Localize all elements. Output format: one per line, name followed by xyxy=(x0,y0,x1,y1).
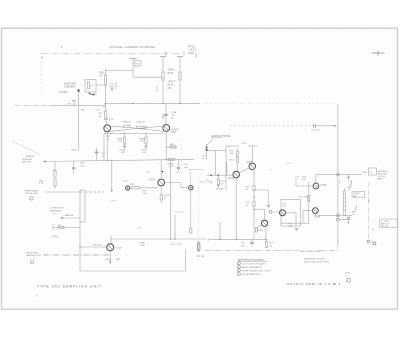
svg-text:AMP 2: AMP 2 xyxy=(378,178,385,181)
wire Q78B collector xyxy=(314,214,316,216)
junction dot TD xyxy=(206,150,208,152)
svg-text:C82 .001: C82 .001 xyxy=(312,130,321,132)
transistor Q73B xyxy=(249,163,255,169)
wire box rail 2 xyxy=(80,190,85,222)
wire output line A xyxy=(316,174,362,176)
hook interface xyxy=(367,198,370,201)
svg-text:Q87 A: Q87 A xyxy=(105,258,112,261)
dashed separator line xyxy=(41,51,184,59)
label TO AMP block xyxy=(380,219,398,228)
label C55 xyxy=(96,109,114,121)
capacitor C59 stub xyxy=(71,147,79,152)
title TYPE 3S2 xyxy=(37,284,102,288)
component C55 R55 xyxy=(68,101,85,112)
svg-text:TYPE 3S2 SAMPLING UNIT: TYPE 3S2 SAMPLING UNIT xyxy=(37,284,102,288)
resistor R76A xyxy=(255,226,263,233)
svg-text:4.7K: 4.7K xyxy=(39,183,44,185)
wire Q73 box top xyxy=(226,145,258,147)
title OUTPUT AMPL xyxy=(287,282,341,286)
interface dash-dot xyxy=(367,182,369,240)
wire output line B xyxy=(318,214,352,216)
label multi-trace units xyxy=(300,250,321,253)
transistor Q78B xyxy=(313,208,319,214)
svg-text:MULTI-TRACE UNITS: MULTI-TRACE UNITS xyxy=(300,250,321,253)
svg-text:4.7 μF: 4.7 μF xyxy=(116,247,123,249)
diode D56 curve xyxy=(89,93,97,96)
transistor Q78A xyxy=(313,183,319,189)
label Q73A xyxy=(228,177,234,180)
svg-text:SAMPLE STROBE: SAMPLE STROBE xyxy=(211,135,231,138)
wire trigger line xyxy=(43,254,110,256)
capacitor C68 xyxy=(176,160,204,174)
svg-text:(BLANK): (BLANK) xyxy=(216,188,224,191)
svg-text:Q75B: Q75B xyxy=(257,230,263,232)
wire Q78A collector xyxy=(315,175,317,184)
resistor R61A xyxy=(123,121,132,128)
svg-text:+: + xyxy=(36,294,38,298)
emitter ladder Q78 xyxy=(298,182,310,224)
transistor Q75B xyxy=(261,220,267,226)
resistor R62A xyxy=(117,134,126,149)
capacitor C62B label xyxy=(141,150,147,155)
svg-text:OUTPUT AMPL № 1 & № 2: OUTPUT AMPL № 1 & № 2 xyxy=(287,282,341,286)
resistor R52 chain xyxy=(177,57,183,104)
label Q73B xyxy=(247,162,273,171)
capacitor C84 xyxy=(347,217,351,224)
wire interdot line xyxy=(43,161,104,163)
label C77 R77 xyxy=(295,176,307,181)
svg-text:DCPL: DCPL xyxy=(168,85,175,87)
label FROM block xyxy=(25,189,39,200)
wire Q73A emitter xyxy=(235,178,237,240)
svg-text:SEMICONDUCTOR TYPES: SEMICONDUCTOR TYPES xyxy=(304,261,330,263)
capacitor C52 cluster xyxy=(110,82,116,90)
label C73 top xyxy=(241,143,248,145)
label Q78A xyxy=(321,184,327,187)
capacitor C58 xyxy=(72,161,85,174)
title VOLTAGE + CURRENT SAMPLING xyxy=(109,45,155,49)
transistor Q75A xyxy=(158,179,165,186)
resistor R50 xyxy=(100,69,107,106)
boundary dash-dot bottom xyxy=(205,249,338,251)
wire Q75B top xyxy=(254,209,265,220)
svg-text:C1A: C1A xyxy=(162,114,167,117)
wire left bias line xyxy=(15,105,106,107)
wire Q73A base xyxy=(207,174,233,176)
svg-text:R79A: R79A xyxy=(139,241,145,244)
resistor R62B xyxy=(139,134,148,149)
label Q78B xyxy=(314,216,320,218)
svg-text:TRACE: TRACE xyxy=(353,192,360,195)
resistor R55A xyxy=(99,103,107,125)
diode box D55 xyxy=(85,80,96,93)
boundary dashed right xyxy=(180,140,182,175)
wire signal line xyxy=(45,191,104,193)
junction node bus xyxy=(105,103,181,105)
hook small xyxy=(372,228,375,231)
svg-text:TD: TD xyxy=(283,206,286,208)
junction diode cluster xyxy=(126,186,130,190)
label FROM TRIG xyxy=(26,252,41,263)
label R79A xyxy=(139,241,145,247)
label Q87 value xyxy=(116,247,123,249)
resistor R75 xyxy=(246,171,256,239)
trace sep element R84 xyxy=(343,188,345,215)
svg-text:27K: 27K xyxy=(118,141,122,143)
label FROM INVERTER xyxy=(22,155,35,163)
svg-text:C59 8.2: C59 8.2 xyxy=(71,150,79,152)
svg-text:CURRENT: CURRENT xyxy=(64,86,76,89)
diode TD cluster xyxy=(205,144,208,160)
wire Q75A collector xyxy=(161,160,163,179)
transistor Q87 xyxy=(107,244,114,251)
svg-text:27K: 27K xyxy=(140,141,144,143)
wire Q73 pair link xyxy=(239,168,249,173)
wire Q87 collector xyxy=(111,236,206,244)
wire emitter Q55B xyxy=(165,131,167,159)
svg-text:SAMPL GENERATOR: SAMPL GENERATOR xyxy=(242,266,262,269)
svg-text:OUTPUT: OUTPUT xyxy=(171,129,181,131)
svg-text:C70A: C70A xyxy=(171,111,177,114)
wire TD link xyxy=(207,150,227,152)
hook left A xyxy=(338,180,341,183)
wire Q87 base xyxy=(79,246,106,247)
transistor Q73A xyxy=(233,171,240,178)
svg-text:4: 4 xyxy=(238,270,239,272)
resistor R66 stub xyxy=(166,144,177,148)
diode clamp xyxy=(347,175,350,181)
wire gate out xyxy=(339,219,349,221)
wire long emitter bus xyxy=(208,238,267,241)
svg-text:REFERENCE DIAGRAMS: REFERENCE DIAGRAMS xyxy=(238,258,264,261)
pin circle A xyxy=(367,240,373,244)
wire output drop xyxy=(170,161,172,239)
potentiometer R80 xyxy=(348,181,353,192)
label SAMPLE STROBE xyxy=(207,135,231,145)
reference diagrams title xyxy=(238,258,268,261)
ground Q76 xyxy=(295,229,299,231)
label TRACE SEP box xyxy=(352,192,365,198)
wire bridge bus xyxy=(104,133,163,134)
wire Q75B emitter xyxy=(265,226,267,240)
svg-text:2: 2 xyxy=(238,263,239,265)
svg-text:C72A: C72A xyxy=(220,180,226,183)
label below Q87 xyxy=(105,258,121,261)
wire Q87 emitter xyxy=(109,251,111,264)
svg-text:1K: 1K xyxy=(100,76,103,78)
svg-text:FROM TRIG: FROM TRIG xyxy=(26,252,39,254)
capacitor C70A xyxy=(162,103,177,124)
svg-text:+300 V: +300 V xyxy=(168,70,176,72)
pot arrow R85 xyxy=(352,206,357,217)
label OUTPUT arrow xyxy=(171,129,181,131)
wire box bottom xyxy=(80,250,186,271)
wire box bottom link xyxy=(281,222,309,224)
svg-text:R61B 18: R61B 18 xyxy=(137,122,146,124)
component bottom cluster xyxy=(53,224,80,230)
dark blob right xyxy=(189,170,193,233)
wire cross couple 2 xyxy=(111,126,164,131)
svg-text:FROM SAMP: FROM SAMP xyxy=(25,189,39,192)
wire bias column xyxy=(95,148,99,161)
junction bubble A xyxy=(337,173,340,176)
label TP mark xyxy=(51,237,58,239)
label R77 bottom xyxy=(171,244,200,253)
label SNAP-OFF line1 xyxy=(64,83,77,89)
connector jack J1 xyxy=(362,168,377,175)
transistor Q76 xyxy=(280,210,286,216)
wire box left edge xyxy=(79,190,81,271)
svg-text:SEP: SEP xyxy=(353,196,358,198)
wire signal line 2 xyxy=(111,161,113,193)
resistor R67A xyxy=(168,159,175,169)
svg-text:Q75A: Q75A xyxy=(149,179,155,182)
wire Q73B emitter xyxy=(253,169,255,171)
junction bubble B1 xyxy=(337,214,340,217)
capacitor C50 box xyxy=(135,61,142,67)
wire supply jog xyxy=(106,59,164,78)
svg-text:2.2K: 2.2K xyxy=(177,244,182,246)
label TP50 block xyxy=(188,46,197,59)
wire Q78B base xyxy=(303,211,313,224)
resistor R76B xyxy=(289,223,294,228)
wire Q73B collector xyxy=(251,146,253,163)
label R86 xyxy=(93,245,102,247)
svg-text:5: 5 xyxy=(238,274,239,276)
label TO VERT OUT xyxy=(378,170,389,181)
reference line 4 xyxy=(237,272,261,276)
wire +supply rail xyxy=(106,102,337,104)
wire emitter Q55A xyxy=(106,132,108,161)
resistor chain mid xyxy=(197,242,206,258)
main output rail xyxy=(337,104,339,247)
svg-text:Q73B: Q73B xyxy=(247,162,253,164)
plus mark bottom xyxy=(36,294,38,298)
junction bubble B2 xyxy=(337,218,340,221)
svg-text:C62B: C62B xyxy=(141,150,147,152)
svg-text:1.9K: 1.9K xyxy=(143,193,148,195)
wire riser xyxy=(175,212,185,239)
svg-text:R50: R50 xyxy=(100,73,105,75)
svg-text:Q78B: Q78B xyxy=(314,216,320,218)
svg-text:Q55B: Q55B xyxy=(171,132,177,134)
register cross mark xyxy=(372,51,385,56)
svg-text:1.9K: 1.9K xyxy=(140,245,145,247)
capacitor C62A label xyxy=(120,149,126,155)
reference line 2 xyxy=(237,265,261,269)
svg-text:AMP V54: AMP V54 xyxy=(22,160,32,163)
svg-text:TP74: TP74 xyxy=(273,212,279,214)
transistor Q55B xyxy=(163,125,170,132)
svg-text:Q78A: Q78A xyxy=(321,184,327,187)
label small q xyxy=(124,181,129,183)
wire Q76 link xyxy=(286,213,297,226)
svg-text:COMPOSITE: COMPOSITE xyxy=(50,208,64,210)
wire Q75A emitter xyxy=(143,184,170,203)
reference line 3 xyxy=(237,269,271,273)
resistor R51 chain xyxy=(160,57,166,104)
svg-text:IND OSC: IND OSC xyxy=(381,226,390,228)
label mid bias xyxy=(146,172,150,174)
wire strobe feed xyxy=(78,92,80,148)
label MOD stack xyxy=(346,272,351,282)
wire Q78A base xyxy=(296,181,313,186)
label GATE xyxy=(58,90,69,94)
wire Q73 box left xyxy=(225,146,227,190)
svg-text:R77A: R77A xyxy=(164,194,170,197)
capacitor C75 xyxy=(241,239,254,247)
svg-text:Q73A: Q73A xyxy=(228,177,234,180)
svg-text:3: 3 xyxy=(238,267,239,269)
svg-text:C62A: C62A xyxy=(120,149,126,152)
capacitor C82 xyxy=(296,124,337,132)
junction node strobe xyxy=(77,89,79,91)
svg-text:+ GATE Iⁱ: + GATE Iⁱ xyxy=(58,90,69,94)
svg-text:R61A 18: R61A 18 xyxy=(123,121,132,124)
svg-text:DCPL: DCPL xyxy=(168,73,175,75)
label SEE PARTS LIST xyxy=(304,258,330,264)
label COMPOSITE BLANKING xyxy=(50,208,64,216)
svg-text:DCPL: DCPL xyxy=(188,52,195,55)
label D76 xyxy=(283,203,288,208)
svg-text:TAKEOFF V24: TAKEOFF V24 xyxy=(26,254,41,257)
label TP58 xyxy=(52,171,57,173)
svg-text:PULSE GEN: PULSE GEN xyxy=(25,193,38,195)
svg-text:+ TP 8: + TP 8 xyxy=(51,237,58,239)
resistor R61B xyxy=(137,122,147,129)
svg-text:+ SAMPLE: + SAMPLE xyxy=(63,214,74,217)
svg-text:± 4.5 V LOGIC VOLTAGES: ± 4.5 V LOGIC VOLTAGES xyxy=(242,262,267,265)
box Q76 xyxy=(281,200,301,227)
svg-text:R86 10K: R86 10K xyxy=(93,245,102,247)
svg-text:MOD: MOD xyxy=(346,272,351,274)
wire box feed xyxy=(96,84,106,86)
svg-text:C73 5: C73 5 xyxy=(241,143,248,145)
wire lower bus xyxy=(104,159,194,161)
wire blob link xyxy=(165,183,189,188)
svg-text:DIGITAL READOUTS: DIGITAL READOUTS xyxy=(242,273,262,276)
zone tick 4 xyxy=(61,45,63,49)
resistor R58 chain xyxy=(39,161,56,189)
svg-text:( ): ( ) xyxy=(53,213,55,215)
svg-text:PROBE CONNECTORS + CKTS: PROBE CONNECTORS + CKTS xyxy=(242,270,272,272)
small mark xyxy=(103,86,158,109)
resistor R73 xyxy=(230,148,239,171)
test point TP74 xyxy=(254,190,279,214)
labels +300V DCPL xyxy=(168,70,176,91)
svg-text:C51: C51 xyxy=(168,88,173,90)
svg-text:PARTIAL A: PARTIAL A xyxy=(378,170,389,173)
svg-text:+12.2 V: +12.2 V xyxy=(168,81,176,83)
label TD xyxy=(202,155,208,160)
svg-text:VOLTAGE + CURRENT SA MPLING: VOLTAGE + CURRENT SA MPLING xyxy=(109,45,155,49)
svg-text:R55 4.7K: R55 4.7K xyxy=(105,119,114,121)
resistor R73A xyxy=(129,184,158,189)
resistor R72A xyxy=(206,151,227,240)
svg-text:+TP: +TP xyxy=(52,171,57,173)
wire cross couple 1 xyxy=(111,126,164,131)
reference line 1 xyxy=(237,262,266,266)
resistor R77B xyxy=(265,239,274,247)
label Q55B xyxy=(162,114,177,134)
transistor Q55A xyxy=(104,125,111,132)
wire trig hook xyxy=(200,181,212,184)
boundary dotted mid xyxy=(197,176,199,262)
svg-text:BLANKING: BLANKING xyxy=(50,209,61,212)
dashed vertical boundary xyxy=(41,54,43,97)
dashed feed line xyxy=(230,126,296,165)
label Q75A xyxy=(138,179,155,230)
pin circle B xyxy=(373,242,376,245)
svg-text:12K: 12K xyxy=(220,184,224,186)
svg-text:SEE PARTS LIST FOR: SEE PARTS LIST FOR xyxy=(304,258,325,261)
svg-text:R71 10K: R71 10K xyxy=(197,256,206,258)
svg-text:SAMPLE: SAMPLE xyxy=(26,155,35,158)
capacitor C54 xyxy=(101,134,116,203)
wire arrow takeoff xyxy=(60,214,80,219)
svg-text:TD 5: TD 5 xyxy=(202,155,208,157)
